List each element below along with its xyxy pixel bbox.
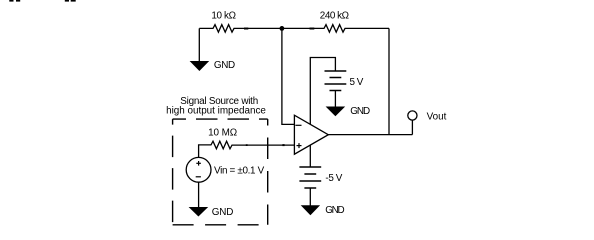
svg-text:10 MΩ: 10 MΩ — [208, 128, 237, 139]
svg-text:GND: GND — [350, 106, 370, 117]
svg-text:GND: GND — [212, 207, 234, 218]
svg-text:Vin = ±0.1 V: Vin = ±0.1 V — [214, 166, 265, 177]
svg-text:high output impedance: high output impedance — [166, 105, 266, 116]
svg-text:10 kΩ: 10 kΩ — [211, 11, 236, 22]
svg-text:GND: GND — [325, 205, 345, 216]
svg-text:GND: GND — [214, 60, 235, 71]
svg-text:240 kΩ: 240 kΩ — [320, 11, 349, 22]
svg-text:-5 V: -5 V — [325, 173, 342, 184]
svg-text:5 V: 5 V — [350, 77, 364, 88]
svg-text:Vout: Vout — [427, 111, 447, 122]
